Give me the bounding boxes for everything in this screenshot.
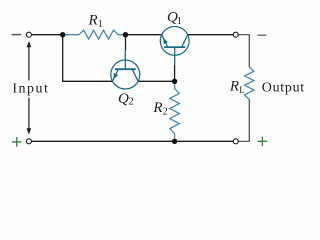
node A junction dot bbox=[60, 32, 65, 37]
resistor R2 bbox=[170, 81, 180, 141]
transistor Q2 bbox=[111, 51, 140, 89]
svg-text:Q: Q bbox=[118, 91, 129, 107]
input top terminal bbox=[26, 32, 31, 37]
wire bottom rail bbox=[29, 140, 236, 142]
input bottom terminal bbox=[26, 139, 31, 144]
svg-text:R: R bbox=[229, 78, 239, 94]
svg-text:1: 1 bbox=[177, 16, 182, 27]
wire top rail right: Q1 collector to output top terminal and corner bbox=[188, 34, 236, 36]
wire Q1 base down to node C bbox=[174, 65, 176, 82]
wire top rail left: input top terminal to node A bbox=[29, 34, 63, 36]
node B junction dot bbox=[123, 32, 128, 37]
wire output top stub and right leg upper bbox=[236, 35, 250, 67]
input polarity minus sign bbox=[12, 34, 22, 36]
wire Q2 base up to node B bbox=[125, 35, 127, 51]
input arrow upper segment with up arrowhead bbox=[27, 41, 32, 81]
svg-text:2: 2 bbox=[163, 107, 168, 118]
svg-text:R: R bbox=[88, 12, 98, 28]
svg-text:1: 1 bbox=[98, 19, 103, 30]
node C junction dot bbox=[172, 79, 177, 84]
input arrow lower segment with down arrowhead bbox=[27, 98, 32, 135]
wire left drop: node A down and right to Q2 emitter bbox=[63, 35, 113, 82]
wire Q2 collector to node C bbox=[138, 80, 175, 82]
resistor RL bbox=[245, 67, 254, 100]
transistor Q1 bbox=[160, 27, 189, 65]
input polarity plus sign bbox=[12, 137, 22, 147]
wire top rail mid: node B to Q1 emitter bbox=[126, 34, 162, 36]
svg-text:Output: Output bbox=[262, 81, 305, 96]
resistor R1 bbox=[63, 30, 126, 39]
svg-text:R: R bbox=[152, 100, 162, 116]
svg-text:L: L bbox=[239, 85, 245, 95]
output polarity minus sign bbox=[257, 34, 266, 36]
svg-text:2: 2 bbox=[129, 97, 134, 108]
node D junction dot on bottom rail bbox=[172, 139, 177, 144]
output polarity plus sign bbox=[258, 137, 268, 147]
output bottom terminal bbox=[233, 139, 238, 144]
svg-text:Input: Input bbox=[12, 81, 49, 96]
wire right leg bottom: RL to bottom rail corner bbox=[236, 100, 250, 142]
output top terminal bbox=[233, 32, 238, 37]
